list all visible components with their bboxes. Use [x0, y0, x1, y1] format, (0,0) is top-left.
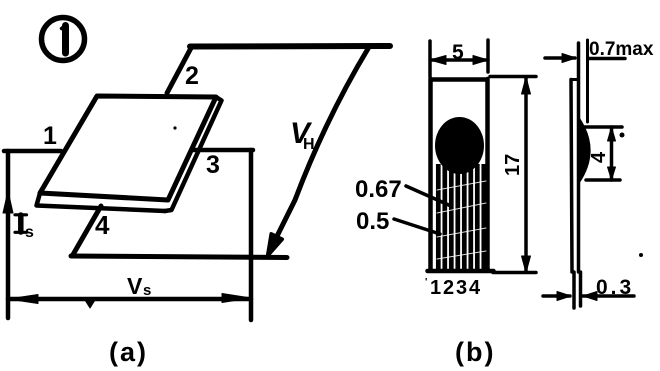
slab front face — [37, 193, 166, 211]
VH measurement diagonal with arrow — [277, 47, 369, 237]
package front outline — [428, 79, 494, 271]
svg-text:0.5: 0.5 — [356, 208, 389, 235]
wire terminal 4 diagonal — [73, 206, 102, 256]
lead below plate — [574, 272, 581, 308]
svg-text:1: 1 — [430, 277, 441, 299]
arrowhead Is current direction up — [3, 191, 13, 213]
svg-text:(b): (b) — [455, 337, 495, 367]
dimension 4 (bulge) — [584, 127, 625, 180]
svg-text:0.3: 0.3 — [596, 276, 634, 299]
svg-text:2: 2 — [185, 62, 199, 90]
label Vs — [127, 273, 151, 299]
bulge half ellipse — [578, 117, 590, 183]
leads hatch area — [438, 164, 484, 270]
svg-text:5: 5 — [452, 41, 464, 64]
svg-text:17: 17 — [502, 154, 524, 176]
arrowhead VH — [268, 234, 283, 256]
svg-text:4: 4 — [588, 151, 610, 163]
leader line 0.67 — [406, 186, 451, 206]
slab right side face — [165, 97, 222, 211]
speck — [173, 126, 176, 129]
label VH — [290, 117, 315, 153]
dimension 5 (width) — [430, 40, 488, 77]
dimension 0.3 (lead) — [543, 276, 634, 301]
svg-text:2: 2 — [443, 277, 454, 299]
plate side profile left edge — [571, 80, 572, 273]
svg-text:3: 3 — [456, 277, 467, 299]
stray dot — [639, 253, 643, 257]
wire terminal 1 horizontal — [4, 149, 61, 154]
svg-text:3: 3 — [206, 151, 220, 179]
svg-text:': ' — [425, 277, 427, 288]
wire right vertical of Is loop — [249, 150, 254, 320]
svg-text:0.67: 0.67 — [355, 176, 402, 203]
svg-text:4: 4 — [95, 210, 110, 240]
svg-text:s: s — [25, 224, 34, 241]
svg-text:4: 4 — [469, 277, 481, 299]
figure number badge circled 1 — [42, 18, 85, 61]
sensor dot circle — [435, 117, 484, 174]
svg-text:(a): (a) — [109, 337, 148, 367]
lead numbers 1234 — [425, 277, 481, 299]
label Is — [15, 215, 34, 241]
wire terminal 3 horizontal — [194, 148, 253, 153]
svg-text:0.7max: 0.7max — [589, 39, 654, 60]
svg-text:s: s — [143, 282, 151, 299]
hatch texture scratches — [437, 181, 486, 259]
wire terminal 2 diagonal — [167, 48, 191, 93]
extension line for 0.7max right — [586, 40, 589, 122]
wire left vertical of Is loop — [6, 151, 11, 318]
dimension 0.7max — [545, 39, 654, 63]
VH loop bottom wire — [71, 256, 287, 258]
VH loop top wire — [190, 43, 390, 50]
dimension 17 (height) — [490, 77, 536, 273]
Vs dimension line with arrows — [8, 294, 251, 309]
plate side profile right edge + 0.7 extension — [577, 43, 581, 272]
Hall plate slab top face — [40, 96, 216, 200]
svg-text:V: V — [127, 273, 143, 299]
svg-text:1: 1 — [43, 122, 57, 150]
plate top connector — [571, 78, 579, 81]
leader line 0.5 — [394, 219, 440, 234]
svg-text:H: H — [303, 136, 315, 153]
